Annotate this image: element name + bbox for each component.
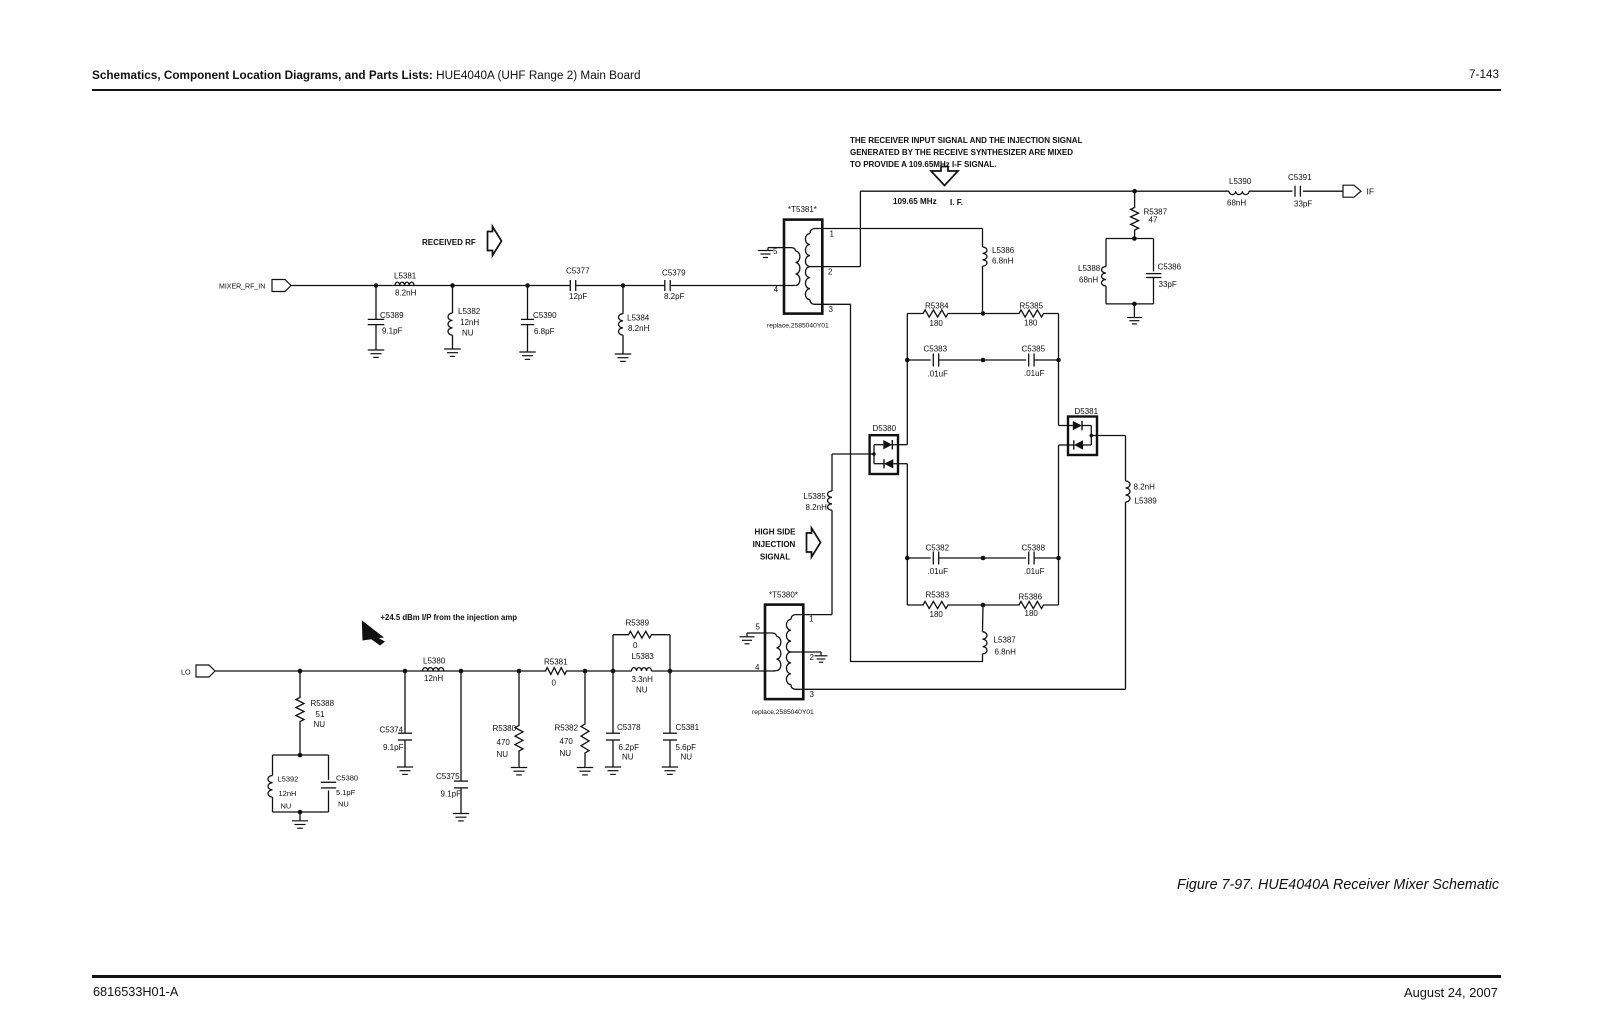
svg-text:12nH: 12nH [279,789,297,798]
svg-text:.01uF: .01uF [1024,567,1045,576]
ground tank L5392 C5380 [299,812,301,821]
svg-text:6.8pF: 6.8pF [534,327,555,336]
resistor R5386 [983,601,1059,608]
wire right bottom ring [1058,558,1060,605]
capacitor C5391 [1294,186,1296,197]
svg-text:C5377: C5377 [566,267,590,276]
ground T5381 pin5 [767,248,769,251]
svg-text:NU: NU [622,753,634,762]
svg-text:12pF: 12pF [569,292,587,301]
svg-text:9.1pF: 9.1pF [382,327,403,336]
capacitor C5382 [907,557,930,559]
arrow injection amp [362,620,384,640]
svg-text:MIXER_RF_IN: MIXER_RF_IN [219,284,265,291]
svg-text:L5389: L5389 [1135,497,1158,506]
svg-text:180: 180 [1025,609,1039,618]
svg-text:L5384: L5384 [627,314,650,323]
capacitor C5375 [460,671,462,781]
inductor L5386 [983,247,988,266]
svg-text:L5382: L5382 [458,307,481,316]
svg-text:Figure 7-97. HUE4040A Receiver: Figure 7-97. HUE4040A Receiver Mixer Sch… [1177,877,1499,893]
svg-text:C5386: C5386 [1158,263,1182,272]
capacitor C5385 [983,359,1026,361]
diode D5381 [1068,417,1097,456]
wire L5386 to R network [982,266,984,313]
resistor R5381 [544,668,569,675]
svg-text:68nH: 68nH [1227,199,1246,208]
svg-text:R5385: R5385 [1020,302,1044,311]
capacitor C5388 [983,557,1026,559]
footer doc number [93,985,178,999]
ground R5380 [511,767,528,769]
wire C5383 to D5380 [906,360,908,445]
wire LO main line [215,670,544,672]
ground L5384 [615,353,632,355]
junctions cap row bottom [905,556,910,561]
connector IF [1343,185,1361,197]
ground T5380 pin2 [820,652,822,656]
svg-text:C5389: C5389 [380,311,404,320]
resistor R5382 [581,671,589,768]
diode D5380 [870,435,898,474]
svg-text:12nH: 12nH [460,318,479,327]
svg-text:NU: NU [497,750,509,759]
svg-text:C5379: C5379 [662,269,686,278]
svg-text:6.8nH: 6.8nH [995,648,1017,657]
svg-text:NU: NU [462,329,474,338]
capacitor C5379 [664,280,666,291]
connector MIXER_RF_IN [272,280,291,292]
wire T5380 pin5 to ground [747,632,765,634]
svg-text:L5381: L5381 [394,272,417,281]
ground T5380 pin5 [746,633,748,637]
inductor L5380 [423,668,444,671]
ground R5382 [577,767,594,769]
svg-text:8.2nH: 8.2nH [806,503,828,512]
capacitor C5390 [527,286,529,320]
wire left bottom ring [906,558,908,605]
svg-text:SIGNAL: SIGNAL [760,553,790,562]
resistor R5384 [907,310,983,317]
svg-text:C5383: C5383 [924,345,948,354]
svg-text:9.1pF: 9.1pF [383,743,404,752]
svg-text:D5380: D5380 [873,424,897,433]
svg-text:L5388: L5388 [1078,264,1101,273]
svg-text:HIGH SIDE: HIGH SIDE [755,528,797,537]
transformer T5381 [784,220,822,314]
svg-text:R5384: R5384 [925,302,949,311]
arrow HIGH SIDE INJECTION [807,528,821,557]
ground C5381 [662,766,679,768]
header rule [92,89,1501,91]
svg-text:L5387: L5387 [994,636,1017,645]
svg-text:33pF: 33pF [1294,200,1312,209]
svg-text:*T5381*: *T5381* [788,205,817,214]
ground C5375 [453,813,470,815]
wire D5381 right to L5389 [1097,435,1126,437]
ground tank L5388 C5386 [1133,304,1135,318]
svg-text:6.8nH: 6.8nH [992,257,1014,266]
arrow down to IF line [931,167,958,186]
svg-text:3: 3 [829,305,834,314]
inductor L5390 [1229,191,1249,194]
wire C5385 to D5381 [1058,360,1060,426]
arrow RECEIVED RF [488,227,502,256]
inductor L5389 [1126,481,1131,502]
ground L5382 [444,348,461,350]
wire T5380 pin3 line [803,688,1126,690]
footer date [1404,985,1498,1000]
capacitor C5377 [569,280,571,291]
inductor L5383 [632,668,652,671]
ground C5374 [397,766,414,768]
capacitor C5386 [1146,273,1161,275]
svg-text:33pF: 33pF [1159,280,1177,289]
svg-text:C5390: C5390 [533,311,557,320]
inductor L5382 [452,286,454,314]
tank circuit L5388 C5386 box [1106,238,1154,240]
svg-text:C5382: C5382 [926,544,950,553]
svg-text:R5388: R5388 [311,699,335,708]
svg-text:C5381: C5381 [676,723,700,732]
svg-text:C5378: C5378 [617,723,641,732]
wire RF main line [291,285,570,287]
svg-text:109.65 MHz: 109.65 MHz [893,197,937,206]
wire D5380 bottom to C5382 [898,463,907,465]
svg-text:IF: IF [1367,187,1375,197]
svg-text:L5383: L5383 [632,652,655,661]
svg-text:5: 5 [756,623,761,632]
capacitor C5381 [669,671,671,733]
svg-text:.01uF: .01uF [928,370,949,379]
svg-text:NU: NU [338,800,349,809]
svg-text:1: 1 [830,230,835,239]
svg-text:LO: LO [181,668,191,677]
svg-text:470: 470 [560,737,574,746]
svg-text:5: 5 [773,247,778,256]
svg-text:C5385: C5385 [1022,345,1046,354]
svg-text:C5374: C5374 [380,726,404,735]
svg-text:R5383: R5383 [926,591,950,600]
svg-text:R5381: R5381 [544,658,568,667]
transformer T5380 [765,605,803,700]
wire IF line [860,190,1229,192]
wire L5389 to T5380 pin3 line [1125,502,1127,689]
svg-text:GENERATED BY THE RECEIVE SYNTH: GENERATED BY THE RECEIVE SYNTHESIZER ARE… [850,148,1073,157]
wire L5385 to T5380 pin1 [831,510,833,614]
svg-text:NU: NU [314,720,326,729]
svg-text:8.2nH: 8.2nH [628,324,650,333]
svg-text:R5389: R5389 [626,619,650,628]
svg-text:2: 2 [828,268,833,277]
svg-text:L5386: L5386 [992,246,1015,255]
svg-text:C5380: C5380 [336,774,358,783]
svg-text:C5375: C5375 [436,772,460,781]
tank circuit L5392 C5380 box [273,754,329,756]
svg-text:51: 51 [316,710,325,719]
svg-text:.01uF: .01uF [1024,369,1045,378]
header title [92,69,641,82]
svg-text:D5381: D5381 [1075,407,1099,416]
connector LO [196,665,215,677]
page number 7-143 [1469,68,1499,81]
svg-text:.01uF: .01uF [928,567,949,576]
svg-text:8.2nH: 8.2nH [1134,483,1156,492]
svg-text:replace,2585040Y01: replace,2585040Y01 [767,323,829,330]
junction R5383 R5386 [981,603,986,608]
inductor L5387 [982,605,985,632]
svg-text:47: 47 [1149,216,1158,225]
resistor R5387 [1131,191,1139,238]
wire D5381 bottom to C5388 [1059,444,1069,446]
svg-text:NU: NU [560,749,572,758]
svg-text:R5382: R5382 [555,724,579,733]
svg-text:*T5380*: *T5380* [769,591,798,600]
svg-text:3.3nH: 3.3nH [632,675,654,684]
svg-text:5.6pF: 5.6pF [676,743,697,752]
resistor R5385 [983,310,1059,317]
svg-text:NU: NU [636,686,648,695]
svg-text:12nH: 12nH [424,674,443,683]
capacitor C5378 [612,671,614,733]
wire left top ring [906,314,908,361]
svg-text:1: 1 [809,615,814,624]
capacitor C5380 [321,781,336,783]
svg-text:NU: NU [281,802,292,811]
capacitor C5389 [375,286,377,320]
svg-text:R5386: R5386 [1019,593,1043,602]
inductor L5392 [268,776,273,798]
svg-text:INJECTION: INJECTION [753,540,796,549]
svg-text:R5380: R5380 [493,724,517,733]
svg-text:+24.5 dBm I/P from the injecti: +24.5 dBm I/P from the injection amp [381,613,518,622]
resistor R5389 [612,635,614,671]
wire T5381 pin3 down [822,304,983,661]
resistor R5380 [515,671,523,768]
svg-text:4: 4 [774,285,779,294]
junctions cap row top [905,358,910,363]
svg-text:0: 0 [633,641,638,650]
svg-text:9.1pF: 9.1pF [441,790,462,799]
svg-text:8.2pF: 8.2pF [664,292,685,301]
svg-text:2: 2 [810,653,815,662]
ground C5389 [368,349,385,351]
ground C5390 [519,351,536,353]
svg-text:L5380: L5380 [423,657,446,666]
svg-text:replace,2585040Y01: replace,2585040Y01 [752,709,814,716]
footer rule [92,975,1501,977]
svg-text:I. F.: I. F. [950,198,963,207]
svg-text:THE RECEIVER INPUT SIGNAL AND: THE RECEIVER INPUT SIGNAL AND THE INJECT… [850,136,1083,145]
wire T5381 pin5 to ground [768,247,784,249]
capacitor C5383 [907,359,930,361]
svg-text:5.1pF: 5.1pF [336,788,356,797]
svg-text:180: 180 [930,319,944,328]
svg-text:180: 180 [930,610,944,619]
svg-text:TO PROVIDE A 109.65MHz I-F SIG: TO PROVIDE A 109.65MHz I-F SIGNAL. [850,160,996,169]
svg-text:RECEIVED RF: RECEIVED RF [422,238,476,247]
svg-text:6.2pF: 6.2pF [619,743,640,752]
capacitor C5374 [404,671,406,733]
svg-text:L5390: L5390 [1229,177,1252,186]
svg-text:3: 3 [810,690,815,699]
inductor L5384 [622,286,624,314]
svg-text:L5385: L5385 [804,492,827,501]
svg-text:0: 0 [552,679,557,688]
svg-text:470: 470 [497,738,511,747]
svg-text:C5391: C5391 [1288,173,1312,182]
svg-text:68nH: 68nH [1079,276,1098,285]
wire right top ring [1058,314,1060,361]
wire T5381 pin2 to IF line [822,266,860,268]
inductor L5388 [1102,267,1107,287]
svg-text:C5388: C5388 [1022,544,1046,553]
wire T5381 pin1 to L5386 [822,228,983,230]
inductor L5381 [395,282,414,285]
ground C5378 [605,766,622,768]
wire D5380 left to L5385 [832,453,870,455]
inductor L5385 [828,491,833,510]
resistor R5383 [907,601,983,608]
svg-text:L5392: L5392 [278,775,299,784]
wire T5380 pin2 to ground [803,651,821,653]
resistor R5388 [296,671,304,755]
svg-text:NU: NU [681,753,693,762]
svg-text:180: 180 [1024,319,1038,328]
junction R5384 R5385 [981,311,986,316]
svg-text:8.2nH: 8.2nH [395,289,417,298]
